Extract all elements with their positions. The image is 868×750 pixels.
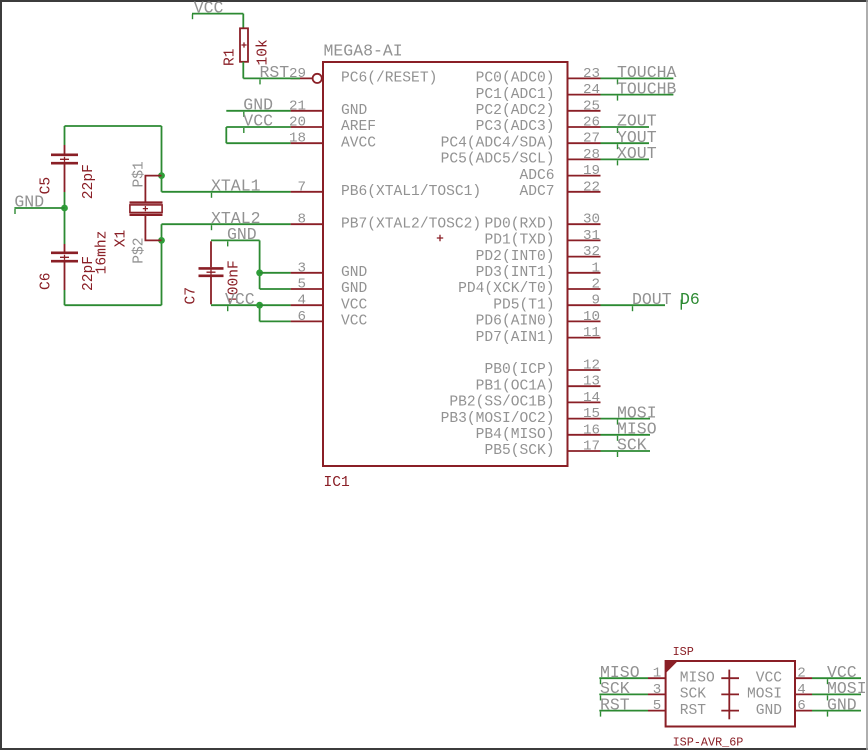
svg-text:PC2(ADC2): PC2(ADC2) bbox=[476, 103, 555, 119]
svg-text:4: 4 bbox=[797, 682, 806, 698]
pin 29 inversion bubble bbox=[313, 74, 322, 83]
wire net MOSI (ISP) bbox=[812, 693, 861, 695]
wire GND to pin 21 bbox=[226, 110, 290, 112]
svg-text:ISP-AVR_6P: ISP-AVR_6P bbox=[673, 736, 744, 750]
wire bottom rail to XTAL2 bbox=[161, 224, 163, 305]
svg-text:IC1: IC1 bbox=[324, 475, 351, 491]
svg-text:23: 23 bbox=[583, 66, 600, 82]
wire VCC supply bar bbox=[192, 13, 243, 15]
wire net VCC (ISP) bbox=[812, 677, 861, 679]
svg-text:C6: C6 bbox=[39, 272, 55, 290]
pin 3 stub bbox=[291, 272, 323, 274]
net label origin tick bbox=[617, 128, 619, 133]
svg-text:16: 16 bbox=[583, 422, 600, 438]
svg-text:PC0(ADC0): PC0(ADC0) bbox=[476, 71, 555, 87]
svg-text:10: 10 bbox=[583, 309, 600, 325]
window frame left bbox=[0, 0, 2, 750]
net label origin tick bbox=[632, 306, 634, 311]
svg-text:PB1(OC1A): PB1(OC1A) bbox=[476, 378, 555, 394]
ISP pin 5 stub bbox=[648, 710, 666, 712]
pin 26 stub bbox=[568, 126, 601, 128]
window frame bottom bbox=[0, 748, 868, 750]
net label origin tick bbox=[14, 209, 16, 214]
wire top rail to C5 bbox=[64, 126, 66, 145]
svg-text:2: 2 bbox=[797, 666, 806, 682]
wire XTAL2 net bbox=[162, 223, 291, 225]
pin 27 stub bbox=[568, 142, 601, 144]
svg-text:GND: GND bbox=[827, 695, 857, 714]
svg-text:11: 11 bbox=[583, 325, 600, 341]
svg-text:VCC: VCC bbox=[341, 297, 368, 313]
svg-text:PD4(XCK/T0): PD4(XCK/T0) bbox=[458, 281, 554, 297]
ISP pin 3 stub bbox=[648, 693, 666, 695]
svg-text:6: 6 bbox=[297, 309, 306, 325]
pin 4 stub bbox=[291, 304, 323, 306]
svg-text:X1: X1 bbox=[114, 229, 130, 247]
svg-text:12: 12 bbox=[583, 358, 600, 374]
svg-text:PB2(SS/OC1B): PB2(SS/OC1B) bbox=[449, 395, 554, 411]
svg-text:1: 1 bbox=[591, 260, 600, 276]
svg-text:PB0(ICP): PB0(ICP) bbox=[484, 362, 554, 378]
svg-text:PD5(T1): PD5(T1) bbox=[493, 297, 554, 313]
svg-text:P$1: P$1 bbox=[131, 161, 147, 188]
svg-text:19: 19 bbox=[583, 163, 600, 179]
svg-text:28: 28 bbox=[583, 147, 600, 163]
net label origin tick bbox=[211, 225, 213, 230]
wire net DOUT bbox=[601, 304, 666, 306]
svg-text:RST: RST bbox=[680, 703, 707, 719]
pin 32 stub bbox=[568, 256, 601, 258]
svg-text:VCC: VCC bbox=[243, 112, 273, 131]
svg-text:PC6(/RESET): PC6(/RESET) bbox=[341, 71, 437, 87]
C5 origin cross bbox=[60, 157, 69, 162]
ISP pin 2 stub bbox=[795, 677, 812, 679]
net label origin tick bbox=[600, 695, 602, 700]
net label origin tick bbox=[600, 679, 602, 684]
svg-text:GND: GND bbox=[756, 703, 783, 719]
window frame top bbox=[0, 0, 868, 2]
svg-text:RST: RST bbox=[600, 695, 630, 714]
wire to pin 6 bbox=[260, 320, 291, 322]
connector ISP (ISP-AVR_6P) body bbox=[666, 661, 795, 727]
net label origin tick bbox=[617, 160, 619, 165]
svg-text:R1: R1 bbox=[223, 48, 239, 66]
wire net ZOUT bbox=[601, 126, 650, 128]
wire C6 to bottom rail bbox=[64, 290, 66, 305]
svg-text:29: 29 bbox=[289, 66, 306, 82]
svg-text:22pF: 22pF bbox=[81, 164, 97, 199]
svg-text:VCC: VCC bbox=[341, 314, 368, 330]
svg-text:3: 3 bbox=[297, 260, 306, 276]
wire GND rail (C7) bbox=[211, 239, 260, 241]
capacitor C7 bbox=[199, 241, 224, 304]
svg-text:2: 2 bbox=[591, 277, 600, 293]
pin 12 stub bbox=[568, 369, 601, 371]
wire XTAL1 net bbox=[162, 191, 291, 193]
IC IC1 MEGA8-AI body bbox=[323, 62, 568, 466]
net label origin tick bbox=[243, 128, 245, 133]
pin 10 stub bbox=[568, 320, 601, 322]
svg-text:PD6(AIN0): PD6(AIN0) bbox=[476, 314, 555, 330]
net label origin tick bbox=[827, 679, 829, 684]
wire VCC vertical to pins 4,6 bbox=[259, 305, 261, 321]
wire to pin 5 bbox=[260, 288, 291, 290]
svg-text:XOUT: XOUT bbox=[617, 144, 657, 163]
svg-text:C7: C7 bbox=[184, 287, 200, 305]
wire net MOSI bbox=[601, 418, 651, 420]
wire to pin 18 AVCC bbox=[226, 142, 290, 144]
svg-text:5: 5 bbox=[297, 277, 306, 293]
ISP pin 6 stub bbox=[795, 710, 812, 712]
svg-text:9: 9 bbox=[591, 293, 600, 309]
pin 8 stub bbox=[291, 223, 323, 225]
svg-text:PD3(INT1): PD3(INT1) bbox=[476, 265, 555, 281]
svg-text:20: 20 bbox=[289, 115, 306, 131]
pin 1 stub bbox=[568, 272, 601, 274]
svg-text:14: 14 bbox=[583, 390, 600, 406]
ISP pin 4 stub bbox=[795, 693, 812, 695]
junction XTAL2 / crystal P$2 bbox=[158, 237, 165, 244]
net label origin tick bbox=[617, 452, 619, 457]
wire to pin 3 bbox=[260, 272, 291, 274]
net label origin tick bbox=[617, 144, 619, 149]
wire RST net bbox=[243, 77, 300, 79]
net label origin tick bbox=[259, 79, 261, 84]
ISP body corner fold bbox=[666, 661, 678, 673]
wire net TOUCHB bbox=[601, 94, 674, 96]
svg-text:PB4(MISO): PB4(MISO) bbox=[476, 427, 555, 443]
svg-text:GND: GND bbox=[341, 265, 368, 281]
svg-text:30: 30 bbox=[583, 212, 600, 228]
pin 16 stub bbox=[568, 434, 601, 436]
C7 origin cross bbox=[207, 270, 216, 275]
svg-text:VCC: VCC bbox=[225, 290, 255, 309]
IC1 origin cross bbox=[437, 235, 443, 241]
svg-text:P$2: P$2 bbox=[131, 238, 147, 264]
svg-text:PB6(XTAL1/TOSC1): PB6(XTAL1/TOSC1) bbox=[341, 184, 481, 200]
pin 30 stub bbox=[568, 223, 601, 225]
wire VCC to pin 20 bbox=[226, 126, 290, 128]
svg-text:PD2(INT0): PD2(INT0) bbox=[476, 249, 555, 265]
wire crystal loop bottom bbox=[65, 304, 162, 306]
svg-text:PC4(ADC4/SDA): PC4(ADC4/SDA) bbox=[441, 135, 555, 151]
net label origin tick bbox=[827, 712, 829, 717]
net label origin tick bbox=[617, 79, 619, 84]
R1 origin cross bbox=[241, 42, 246, 47]
pin 18 stub bbox=[291, 142, 323, 144]
svg-text:PC3(ADC3): PC3(ADC3) bbox=[476, 119, 555, 135]
svg-text:GND: GND bbox=[14, 193, 44, 212]
net label origin tick bbox=[617, 420, 619, 425]
net label origin tick bbox=[600, 712, 602, 717]
svg-text:22: 22 bbox=[583, 179, 600, 195]
net label origin tick bbox=[243, 112, 245, 117]
svg-text:MEGA8-AI: MEGA8-AI bbox=[324, 42, 403, 61]
svg-text:7: 7 bbox=[297, 179, 306, 195]
ISP header symbol bbox=[721, 670, 739, 720]
svg-text:6: 6 bbox=[797, 698, 806, 714]
pin 21 stub bbox=[291, 110, 323, 112]
pin 7 stub bbox=[291, 191, 323, 193]
svg-text:D6: D6 bbox=[680, 290, 700, 309]
svg-text:TOUCHB: TOUCHB bbox=[617, 79, 677, 98]
svg-text:26: 26 bbox=[583, 115, 600, 131]
junction VCC pin 4 bbox=[256, 302, 263, 309]
svg-text:XTAL1: XTAL1 bbox=[211, 177, 261, 196]
svg-text:AREF: AREF bbox=[341, 119, 376, 135]
svg-text:PC1(ADC1): PC1(ADC1) bbox=[476, 87, 555, 103]
wire net SCK bbox=[601, 450, 651, 452]
C6 origin cross bbox=[60, 255, 69, 260]
crystal X1 bbox=[130, 176, 163, 241]
svg-text:SCK: SCK bbox=[617, 436, 647, 455]
svg-text:25: 25 bbox=[583, 98, 600, 114]
pin 17 stub bbox=[568, 450, 601, 452]
pin 23 stub bbox=[568, 77, 601, 79]
svg-text:PD0(RXD): PD0(RXD) bbox=[484, 216, 554, 232]
svg-text:13: 13 bbox=[583, 374, 600, 390]
X1 origin cross bbox=[143, 206, 148, 211]
svg-text:VCC: VCC bbox=[756, 670, 783, 686]
net label origin tick bbox=[227, 306, 229, 311]
net label origin tick bbox=[192, 14, 194, 19]
ISP pin 1 stub bbox=[648, 677, 666, 679]
pin 29 stub (inverted) bbox=[291, 77, 313, 79]
svg-text:1: 1 bbox=[653, 666, 662, 682]
svg-text:3: 3 bbox=[653, 682, 662, 698]
pin 2 stub bbox=[568, 288, 601, 290]
svg-text:27: 27 bbox=[583, 131, 600, 147]
net label origin tick bbox=[827, 695, 829, 700]
wire net SCK (ISP) bbox=[599, 693, 648, 695]
svg-text:ISP: ISP bbox=[673, 645, 694, 659]
junction GND bbox=[61, 205, 68, 212]
svg-text:DOUT: DOUT bbox=[632, 290, 672, 309]
svg-text:ADC6: ADC6 bbox=[519, 168, 554, 184]
pin 11 stub bbox=[568, 337, 601, 339]
wire GND net (left) bbox=[14, 207, 64, 209]
wire net MISO bbox=[601, 434, 651, 436]
wire net XOUT bbox=[601, 158, 650, 160]
resistor R1 body bbox=[240, 28, 248, 62]
wire net MISO (ISP) bbox=[599, 677, 648, 679]
svg-text:24: 24 bbox=[583, 82, 600, 98]
label origin tick D6 bbox=[680, 300, 682, 310]
wire R1 to RST net bbox=[242, 62, 244, 79]
svg-text:PB5(SCK): PB5(SCK) bbox=[484, 443, 554, 459]
wire VCC rail (C7) bbox=[211, 304, 260, 306]
pin 25 stub bbox=[568, 110, 601, 112]
svg-text:10k: 10k bbox=[256, 39, 272, 66]
pin 9 stub bbox=[568, 304, 601, 306]
net label origin tick bbox=[617, 436, 619, 441]
wire crystal loop top bbox=[65, 125, 162, 127]
svg-text:PC5(ADC5/SCL): PC5(ADC5/SCL) bbox=[441, 152, 555, 168]
pin 13 stub bbox=[568, 385, 601, 387]
wire net RST (ISP) bbox=[599, 710, 648, 712]
junction XTAL1 / crystal P$1 bbox=[158, 172, 165, 179]
svg-text:PD7(AIN1): PD7(AIN1) bbox=[476, 330, 555, 346]
wire GND vertical to pins 3,5 bbox=[259, 240, 261, 289]
pin 5 stub bbox=[291, 288, 323, 290]
wire top rail to XTAL1 bbox=[161, 126, 163, 192]
capacitor C6 bbox=[51, 244, 78, 290]
pin 15 stub bbox=[568, 418, 601, 420]
svg-text:5: 5 bbox=[653, 698, 662, 714]
net label origin tick bbox=[617, 96, 619, 101]
svg-text:SCK: SCK bbox=[680, 687, 707, 703]
svg-text:PD1(TXD): PD1(TXD) bbox=[484, 233, 554, 249]
pin 24 stub bbox=[568, 94, 601, 96]
svg-text:21: 21 bbox=[289, 98, 306, 114]
svg-text:MISO: MISO bbox=[680, 670, 715, 686]
pin 6 stub bbox=[291, 320, 323, 322]
svg-text:PB7(XTAL2/TOSC2): PB7(XTAL2/TOSC2) bbox=[341, 216, 481, 232]
svg-text:18: 18 bbox=[289, 131, 306, 147]
capacitor C5 bbox=[51, 145, 78, 192]
svg-text:16mhz: 16mhz bbox=[95, 231, 111, 275]
pin 20 stub bbox=[291, 126, 323, 128]
window frame right bbox=[866, 0, 868, 750]
svg-text:GND: GND bbox=[341, 281, 368, 297]
svg-text:31: 31 bbox=[583, 228, 600, 244]
svg-text:MOSI: MOSI bbox=[747, 687, 782, 703]
svg-text:GND: GND bbox=[227, 225, 257, 244]
pin 31 stub bbox=[568, 239, 601, 241]
wire to pin 4 bbox=[260, 304, 291, 306]
svg-text:PB3(MOSI/OC2): PB3(MOSI/OC2) bbox=[441, 411, 555, 427]
wire VCC down to AVCC row bbox=[225, 127, 227, 143]
svg-text:4: 4 bbox=[297, 293, 306, 309]
svg-text:GND: GND bbox=[341, 103, 368, 119]
net label origin tick bbox=[227, 241, 229, 246]
svg-text:8: 8 bbox=[297, 212, 306, 228]
wire net TOUCHA bbox=[601, 77, 674, 79]
wire net GND (ISP) bbox=[812, 710, 861, 712]
wire VCC to R1 bbox=[242, 14, 244, 29]
junction GND pin 3 bbox=[256, 269, 263, 276]
net label origin tick bbox=[211, 193, 213, 198]
svg-text:ADC7: ADC7 bbox=[519, 184, 554, 200]
pin 22 stub bbox=[568, 191, 601, 193]
pin 28 stub bbox=[568, 158, 601, 160]
svg-text:RST: RST bbox=[260, 63, 290, 82]
pin 19 stub bbox=[568, 175, 601, 177]
svg-text:32: 32 bbox=[583, 244, 600, 260]
wire net YOUT bbox=[601, 142, 650, 144]
svg-text:15: 15 bbox=[583, 406, 600, 422]
wire C5 to C6 / GND junction bbox=[64, 192, 66, 244]
svg-text:17: 17 bbox=[583, 439, 600, 455]
svg-text:AVCC: AVCC bbox=[341, 135, 376, 151]
pin 14 stub bbox=[568, 401, 601, 403]
svg-text:VCC: VCC bbox=[194, 0, 224, 17]
